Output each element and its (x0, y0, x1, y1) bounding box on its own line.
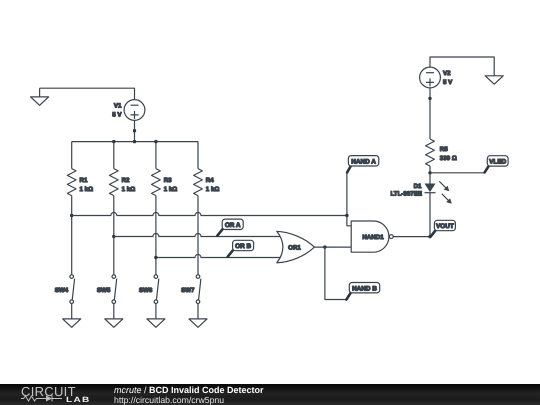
switch SW7 (181, 275, 201, 304)
svg-text:1 kΩ: 1 kΩ (80, 186, 94, 193)
junction dot (R1 / NAND A tap) (70, 214, 73, 217)
svg-text:SW7: SW7 (181, 287, 195, 294)
svg-text:D1: D1 (414, 183, 422, 190)
wire: bus to R1 (71, 142, 73, 169)
wire: top-left ground to V1 top (40, 88, 135, 100)
ground (top right) (485, 76, 503, 84)
svg-text:NAND B: NAND B (352, 285, 377, 292)
resistor R2 (109, 169, 135, 196)
resistor R3 (152, 169, 178, 196)
switch SW4 (55, 275, 75, 304)
svg-text:R5: R5 (440, 146, 448, 153)
footer bar (0, 384, 540, 405)
footer title (114, 385, 264, 395)
wire: V2 top to top-right ground (430, 57, 494, 76)
wire: NAND A flag to NAND1 input A (347, 173, 351, 226)
voltage source V2 (420, 67, 454, 88)
ground (SW5) (105, 319, 123, 327)
label flag VLED (485, 156, 508, 173)
svg-text:OR B: OR B (235, 243, 251, 250)
junction dot (VLED node) (428, 171, 431, 174)
svg-text:SW5: SW5 (97, 287, 111, 294)
label flag NAND B (346, 283, 379, 300)
svg-text:R2: R2 (122, 177, 130, 184)
ground (top left) (31, 88, 49, 105)
bus wire (72, 141, 198, 143)
junction dot (VOUT node) (428, 235, 431, 238)
nand-gate NAND1 (351, 221, 393, 252)
junction dot (NAND A tap) (345, 214, 348, 217)
label flag NAND A (347, 156, 379, 173)
wire: R1 to SW4 (71, 196, 73, 275)
svg-text:1 kΩ: 1 kΩ (164, 186, 178, 193)
wire: bus to R4 (197, 142, 199, 169)
CircuitLab logo (21, 384, 76, 399)
svg-text:SW4: SW4 (55, 287, 69, 294)
voltage source V1 (112, 100, 145, 121)
svg-text:R1: R1 (80, 177, 88, 184)
switch SW5 (97, 275, 117, 304)
resistor R5 (426, 139, 457, 166)
svg-text:LTL-307EE: LTL-307EE (390, 190, 422, 197)
wire: NAND1 output to VOUT node (393, 236, 430, 238)
wire: OR1 output down to NAND B flag (325, 247, 346, 299)
wire: V1 bottom to bus (134, 120, 136, 141)
wire: VLED net (430, 172, 484, 174)
wire: SW7 to ground (197, 304, 199, 319)
resistor R4 (194, 169, 220, 196)
svg-text:5 V: 5 V (112, 112, 122, 119)
wire: SW6 to ground (155, 304, 157, 319)
wire: OR A net (R2 tap to OR1 input A, hops over R3 R4) (114, 234, 281, 237)
switch SW6 (139, 275, 159, 304)
svg-text:NAND1: NAND1 (362, 234, 384, 241)
ground (SW4) (63, 319, 81, 327)
label flag OR A (217, 219, 243, 236)
wire: D1 cathode to VOUT node (429, 193, 431, 237)
label flag VOUT (431, 220, 456, 236)
wire: R2 to SW5 (113, 196, 115, 275)
wire: bus to R2 (113, 142, 115, 169)
wire: bus to R3 (155, 142, 157, 169)
svg-text:VLED: VLED (489, 159, 506, 166)
junction dot (V2 terminal) (428, 97, 431, 100)
junction dot (OR1 output) (323, 245, 326, 248)
junction dot (V1 terminal) (133, 129, 136, 132)
svg-text:V1: V1 (114, 103, 122, 110)
label flag OR B (228, 240, 254, 256)
svg-text:OR1: OR1 (288, 245, 301, 252)
junction dot (bus/R3) (154, 140, 157, 143)
svg-text:1 kΩ: 1 kΩ (206, 186, 220, 193)
ground (SW6) (147, 319, 165, 327)
led D1 (390, 181, 451, 204)
junction dot (bus/R2) (112, 140, 115, 143)
ground (SW7) (189, 319, 207, 327)
svg-text:VOUT: VOUT (436, 223, 454, 230)
or-gate OR1 (277, 231, 315, 262)
svg-text:R3: R3 (164, 177, 172, 184)
junction dot (R2 / OR A tap) (112, 235, 115, 238)
wire: R3 to SW6 (155, 196, 157, 275)
svg-text:5 V: 5 V (443, 79, 453, 86)
svg-text:V2: V2 (443, 70, 451, 77)
svg-text:1 kΩ: 1 kΩ (122, 186, 136, 193)
wire: SW5 to ground (113, 304, 115, 319)
svg-text:NAND A: NAND A (351, 158, 376, 165)
resistor R1 (67, 169, 93, 196)
wire: SW4 to ground (71, 304, 73, 319)
svg-text:OR A: OR A (225, 222, 241, 229)
svg-text:330 Ω: 330 Ω (440, 155, 457, 162)
wire: R4 to SW7 (197, 196, 199, 275)
wire: V2 bottom to R5 (429, 88, 431, 139)
wire: NAND A net (R1 tap to NAND1 input, hops over R2 R3 R4) (72, 213, 347, 216)
wire: R5 to D1 anode (429, 166, 431, 184)
junction dot (bus/V1) (133, 140, 136, 143)
wire: OR1 output to NAND1 input B (314, 246, 351, 248)
footer url (114, 395, 224, 405)
svg-text:SW6: SW6 (139, 287, 153, 294)
svg-text:R4: R4 (206, 177, 214, 184)
wire: OR B net (R3 tap to OR1 input B, hop over R4) (156, 255, 281, 258)
junction dot (R3 / OR B tap) (154, 256, 157, 259)
